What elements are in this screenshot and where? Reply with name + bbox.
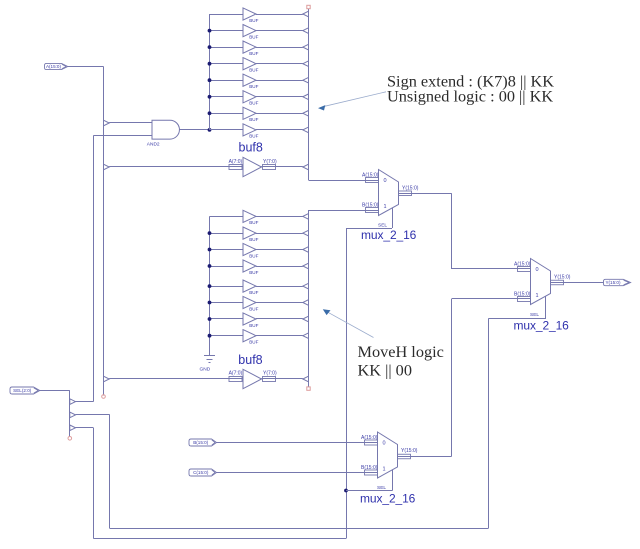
wire lower bus to U1 B	[309, 210, 379, 212]
svg-text:BUF: BUF	[249, 306, 258, 311]
bus tap output T3	[303, 61, 309, 67]
buffer BUF B5	[243, 296, 256, 308]
wire U2 SEL left	[346, 490, 393, 492]
wire input buf B3 lower bank	[210, 266, 244, 268]
bus tap SEL0 to AND2	[70, 399, 76, 405]
bus tap A(7:0) to upper buf8	[104, 164, 110, 170]
wire U1 Y down	[451, 193, 453, 269]
wire input buf U12 top bank	[210, 47, 244, 49]
wire U1 Y to U3 A	[452, 268, 531, 270]
pin B U1	[366, 208, 379, 213]
wire SEL2 bottom run	[110, 528, 488, 530]
junction top bank input 4	[208, 78, 212, 82]
wire SEL1 to U1 SEL pin	[346, 228, 392, 230]
wire input buf B6 lower bank	[210, 318, 244, 320]
svg-text:BUF: BUF	[249, 84, 258, 89]
lower bank input column wire	[209, 216, 211, 355]
svg-text:BUF: BUF	[249, 117, 258, 122]
svg-text:0: 0	[383, 440, 386, 446]
input port B(15:0)	[189, 439, 217, 446]
bus tap output T2	[303, 44, 309, 50]
svg-text:0: 0	[384, 178, 387, 184]
annotation arrow 2 head	[323, 309, 331, 315]
junction top bank input 3	[208, 62, 212, 66]
wire input buf B5 lower bank	[210, 302, 244, 304]
wire output buf T2	[256, 47, 303, 49]
svg-text:Y(7:0): Y(7:0)	[263, 370, 277, 376]
pin wire SEL U1	[392, 208, 394, 228]
wire output buf B5	[256, 302, 303, 304]
wire SEL2 horizontal	[76, 414, 110, 416]
svg-text:1: 1	[536, 293, 539, 299]
ground symbol GND	[204, 355, 215, 357]
bus tap A(7:0) to lower buf8	[104, 376, 110, 382]
svg-text:1: 1	[383, 466, 386, 472]
wire output buf B1	[256, 233, 303, 235]
svg-text:1: 1	[384, 204, 387, 210]
wire SEL1 vertical up shared	[346, 228, 348, 539]
wire tap to lower buf8 A(7:0)	[109, 378, 243, 380]
svg-text:BUF: BUF	[249, 18, 258, 23]
mux U3 body	[531, 259, 551, 305]
junction SEL1 / U2 SEL	[344, 489, 348, 493]
wire U2 Y up	[451, 299, 453, 457]
pin B U3	[518, 297, 531, 302]
wire input buf B7 lower bank	[210, 335, 244, 337]
pin A U3	[518, 267, 531, 272]
top bank input column wire	[209, 14, 211, 130]
bus tap output B0	[303, 214, 309, 220]
wire SEL2 vertical up to U3	[488, 319, 490, 529]
svg-text:BUF: BUF	[249, 237, 258, 242]
junction top bank input 5	[208, 95, 212, 99]
svg-text:BUF: BUF	[249, 134, 258, 139]
wire output buf T0	[256, 14, 303, 16]
input port SEL(2:0)	[10, 387, 40, 394]
wire SEL0 to AND2 input 2	[93, 135, 152, 137]
mux U2 body	[378, 432, 398, 478]
bus net A(15:0) vertical	[103, 67, 105, 396]
buffer lower buf8	[243, 369, 262, 388]
wire C port to U2 B	[217, 472, 378, 474]
wire input buf U13 top bank	[210, 63, 244, 65]
wire upper buf8 out	[262, 166, 303, 168]
pin wire SEL U3	[545, 296, 547, 319]
wire SEL1 vertical down	[93, 428, 95, 539]
junction lower bank input 2	[208, 248, 212, 252]
wire B port to U2 A	[217, 442, 378, 444]
svg-text:buf8: buf8	[239, 141, 263, 155]
pin wire SEL U2	[392, 470, 394, 491]
buffer BUF B6	[243, 313, 256, 325]
wire top bus to U1 A	[309, 180, 379, 182]
wire input buf B1 lower bank	[210, 233, 244, 235]
wire tap to upper buf8 A(7:0)	[109, 166, 243, 168]
svg-text:Unsigned logic : 00 || KK: Unsigned logic : 00 || KK	[387, 87, 553, 106]
wire output buf T6	[256, 113, 303, 115]
open-end marker on SEL bus	[68, 437, 72, 441]
junction lower bank input 1	[208, 231, 212, 235]
svg-text:Y(15:0): Y(15:0)	[605, 280, 621, 285]
bus tap output B7	[303, 333, 309, 339]
svg-text:A(15:0): A(15:0)	[46, 64, 62, 69]
top bank output bus vertical	[308, 9, 310, 180]
junction lower bank input 7	[208, 334, 212, 338]
svg-text:BUF: BUF	[249, 270, 258, 275]
lower bank output bus vertical	[308, 210, 310, 387]
wire input buf B2 lower bank	[210, 249, 244, 251]
svg-text:MoveH logic: MoveH logic	[358, 342, 444, 361]
input port A(15:0)	[45, 63, 68, 69]
wire input buf U11 top bank	[210, 30, 244, 32]
svg-text:BUF: BUF	[249, 220, 258, 225]
buffer BUF T4	[243, 74, 256, 86]
wire input buf U17 top bank	[210, 129, 244, 131]
bus tap output T4	[303, 77, 309, 83]
svg-text:C(15:0): C(15:0)	[193, 470, 209, 475]
wire output buf B2	[256, 249, 303, 251]
wire SEL0 horizontal	[76, 401, 94, 403]
svg-text:BUF: BUF	[249, 51, 258, 56]
junction AND2 output to buffer column	[208, 128, 212, 132]
pin Y U3	[551, 280, 564, 285]
buffer BUF T7	[243, 124, 256, 136]
svg-text:BUF: BUF	[249, 253, 258, 258]
buffer BUF T0	[243, 8, 256, 20]
pin Y(7:0) lower buf8	[263, 377, 276, 382]
bus tap A to AND2	[104, 120, 110, 126]
svg-text:Y(15:0): Y(15:0)	[401, 448, 418, 454]
pin A U1	[366, 178, 379, 183]
bus tap output B2	[303, 247, 309, 253]
bus tap output B6	[303, 316, 309, 322]
annotation arrow 1 head	[318, 105, 325, 110]
svg-text:BUF: BUF	[249, 101, 258, 106]
buffer BUF B2	[243, 243, 256, 255]
pin B U2	[365, 470, 378, 475]
pin A(7:0) lower buf8	[229, 377, 242, 382]
wire SEL port to SEL bus	[40, 390, 70, 392]
wire output buf B4	[256, 286, 303, 288]
input port C(15:0)	[189, 469, 217, 476]
svg-text:BUF: BUF	[249, 68, 258, 73]
bus tap output T6	[303, 111, 309, 117]
wire output buf T5	[256, 96, 303, 98]
wire input buf U15 top bank	[210, 96, 244, 98]
wire output buf T1	[256, 30, 303, 32]
svg-text:BUF: BUF	[249, 290, 258, 295]
wire output buf B7	[256, 335, 303, 337]
buffer BUF T5	[243, 91, 256, 103]
wire input buf B4 lower bank	[210, 286, 244, 288]
bus tap output B4	[303, 283, 309, 289]
wire output buf T3	[256, 63, 303, 65]
buffer BUF B7	[243, 330, 256, 342]
pin A U2	[365, 440, 378, 445]
buffer upper buf8	[243, 157, 262, 176]
wire U2 Y to U3 B	[452, 298, 531, 300]
svg-text:A(7:0): A(7:0)	[229, 370, 243, 376]
junction top bank input 6	[208, 111, 212, 115]
svg-text:mux_2_16: mux_2_16	[514, 319, 570, 333]
junction lower bank input 3	[208, 264, 212, 268]
output port Y(15:0)	[604, 279, 631, 285]
wire output buf T7	[256, 129, 303, 131]
AND gate AND2	[152, 120, 179, 139]
buffer BUF T6	[243, 107, 256, 119]
bus tap upper buf8 out	[303, 164, 309, 170]
svg-text:mux_2_16: mux_2_16	[361, 228, 417, 242]
wire U3 Y out	[551, 282, 604, 284]
wire input buf U14 top bank	[210, 80, 244, 82]
wire A port to A bus	[68, 66, 104, 68]
wire SEL1 bottom run	[93, 538, 346, 540]
wire input buf U16 top bank	[210, 113, 244, 115]
buffer BUF B4	[243, 280, 256, 292]
svg-text:B(15:0): B(15:0)	[193, 440, 209, 445]
bus tap output B3	[303, 263, 309, 269]
wire U2 Y out	[398, 456, 452, 458]
buffer BUF B0	[243, 210, 256, 222]
svg-text:KK || 00: KK || 00	[358, 361, 412, 380]
wire output buf B6	[256, 318, 303, 320]
bus tap lower buf8 out	[303, 376, 309, 382]
svg-text:AND2: AND2	[147, 141, 160, 147]
junction lower bank input 6	[208, 317, 212, 321]
svg-text:BUF: BUF	[249, 34, 258, 39]
wire SEL2 to U3 SEL pin	[488, 318, 545, 320]
junction lower bank input 5	[208, 301, 212, 305]
open-end marker on A bus	[102, 395, 106, 399]
mux U1 body	[379, 170, 399, 216]
bus tap output T0	[303, 11, 309, 17]
svg-text:BUF: BUF	[249, 323, 258, 328]
wire output buf B0	[256, 216, 303, 218]
annotation arrow 1 line	[325, 92, 387, 107]
annotation arrow 2 line	[328, 312, 374, 337]
wire SEL0 vertical up	[93, 136, 95, 402]
svg-text:GND: GND	[200, 367, 211, 373]
pin A(7:0) upper buf8	[229, 165, 242, 170]
bus tap output T5	[303, 94, 309, 100]
open-end marker lower bus	[307, 387, 310, 390]
wire input buf U10 top bank	[210, 14, 244, 16]
svg-text:SEL(2:0): SEL(2:0)	[13, 388, 32, 393]
svg-text:0: 0	[536, 267, 539, 273]
svg-text:mux_2_16: mux_2_16	[360, 491, 416, 505]
bus tap output T1	[303, 28, 309, 34]
wire output buf B3	[256, 266, 303, 268]
pin Y U1	[399, 191, 412, 196]
wire U1 Y out	[399, 193, 452, 195]
buffer BUF T1	[243, 25, 256, 37]
wire input buf B0 lower bank	[210, 216, 244, 218]
buffer BUF T2	[243, 41, 256, 53]
bus tap SEL2 to mux_2_16 U3	[70, 412, 76, 418]
wire output buf T4	[256, 80, 303, 82]
bus tap output B1	[303, 230, 309, 236]
pin Y U2	[398, 454, 411, 459]
buffer BUF B1	[243, 227, 256, 239]
junction top bank input 2	[208, 45, 212, 49]
wire AND2 output	[179, 129, 209, 131]
bus tap SEL1 to mux_2_16 U1/U2	[70, 425, 76, 431]
wire tap to AND2 input 1	[109, 122, 152, 124]
wire SEL2 vertical down	[109, 415, 111, 529]
bus net SEL(2:0) vertical	[69, 391, 71, 438]
svg-text:SEL: SEL	[530, 312, 539, 318]
open-end marker top bus	[307, 5, 310, 8]
buffer BUF T3	[243, 58, 256, 70]
bus tap output T7	[303, 127, 309, 133]
svg-text:BUF: BUF	[249, 340, 258, 345]
bus tap output B5	[303, 300, 309, 306]
buffer BUF B3	[243, 260, 256, 272]
pin Y(7:0) upper buf8	[263, 165, 276, 170]
wire SEL1 horizontal	[76, 427, 94, 429]
junction top bank input 1	[208, 29, 212, 33]
junction lower bank input 4	[208, 284, 212, 288]
wire lower buf8 out	[262, 378, 303, 380]
svg-text:buf8: buf8	[238, 353, 262, 367]
